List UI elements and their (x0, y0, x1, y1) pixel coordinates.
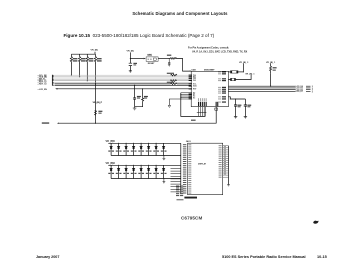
resistor R413 (94, 111, 96, 115)
resistor R411 (231, 71, 239, 73)
U401 bottom pin names (198, 98, 206, 101)
junction dots row2 (118, 165, 157, 166)
stamp mark bottom right (313, 221, 318, 224)
wire bundle under U401 (199, 107, 206, 117)
svg-text:RESET: RESET (148, 63, 155, 65)
switch S401 internals (148, 58, 152, 60)
pin arrow into S401 (144, 58, 146, 59)
wire supply rail (71, 52, 95, 54)
diode D414 (148, 165, 150, 178)
diode D405 (140, 143, 142, 155)
svg-text:3: 3 (312, 91, 313, 93)
diode labels row1 (108, 151, 166, 152)
diode D403 (125, 143, 127, 155)
wire R402 to bus (79, 64, 81, 77)
svg-text:DISPLAY: DISPLAY (198, 162, 207, 165)
diode D416 (163, 165, 165, 178)
wire K column down (181, 93, 206, 117)
wire K4 row to off-page (169, 99, 191, 105)
svg-text:SDA: SDA (193, 85, 197, 88)
U401 left pin box K4 (189, 98, 192, 99)
ground row2 (163, 179, 166, 184)
node +VR_R label (42, 122, 49, 123)
bus left bracket (51, 75, 53, 86)
resistor R402 (79, 54, 81, 64)
resistor R408 (270, 63, 272, 73)
diode D413 (140, 165, 142, 178)
svg-text:P03: P03 (193, 80, 196, 82)
U401 right pin boxes (222, 71, 226, 102)
DS401 left inner pin names (188, 144, 191, 193)
diode labels row2 (108, 173, 166, 174)
svg-text:VR_(B): VR_(B) (91, 49, 99, 51)
wire R403 to bus (86, 64, 88, 81)
ground RC cluster (133, 107, 137, 110)
label below pin cluster (177, 199, 184, 200)
resistor R405 series (171, 83, 177, 85)
capacitor C403 (234, 99, 237, 109)
svg-text:VR_(B)5: VR_(B)5 (106, 140, 116, 143)
diode D408 (163, 143, 165, 155)
bus line dark 2 (55, 83, 171, 85)
switch S401 box (146, 57, 158, 61)
label xtal net (191, 120, 196, 121)
U401 right inner pin names (218, 72, 221, 103)
wire R408 to bus (270, 73, 272, 86)
junction dots row1 (118, 143, 157, 144)
wire VR_B drop (129, 52, 131, 70)
wire R401 to bus (70, 64, 72, 75)
page header (0, 11, 360, 16)
resistor R409 series (170, 80, 176, 82)
bottom part label bar (184, 197, 197, 199)
wire LCD bus 1 (228, 85, 310, 87)
wire LCD bus 2 (228, 87, 310, 89)
U401 left pin names (193, 75, 197, 100)
bus band gray lines (55, 77, 192, 83)
svg-text:+ KEY_C3: + KEY_C3 (38, 83, 47, 85)
resistor R401 (70, 54, 72, 64)
svg-text:+ LCD_EN: + LCD_EN (38, 89, 48, 91)
ground DS401 right (227, 185, 230, 187)
wire keypad row2 bottom rail (111, 178, 181, 180)
resistor R403 (86, 54, 88, 64)
svg-text:VR_(B)_P: VR_(B)_P (93, 102, 103, 104)
svg-text:For Pin Assignment Codes, cons: For Pin Assignment Codes, consult: (188, 46, 229, 49)
diode D415 (155, 165, 157, 178)
wire switch to R407 (158, 58, 170, 60)
svg-text:VR_(B)6: VR_(B)6 (106, 162, 116, 165)
left stub wires lower (171, 169, 181, 192)
svg-text:C6795CM: C6795CM (181, 216, 202, 221)
diode D406 (148, 143, 150, 155)
footer left (36, 255, 59, 259)
resistor R410 (135, 89, 144, 107)
capacitor C404 (244, 99, 247, 109)
svg-text:VR_(B)_1: VR_(B)_1 (266, 62, 276, 64)
ground C403 (234, 117, 237, 119)
wire R407 to U401 (176, 59, 192, 72)
diode D412 (133, 165, 135, 178)
diode D407 (155, 143, 157, 155)
wire VR_B_3 drop (242, 63, 244, 72)
ground C404 (244, 117, 247, 119)
footer right (222, 255, 306, 259)
wire keypad row2 top rail (108, 164, 181, 166)
wire U401 pin right 1 (228, 71, 243, 73)
wire xtal drop (59, 107, 217, 124)
wire VR_B to switch (130, 58, 143, 60)
figure caption (64, 33, 215, 38)
wire LCD bus 4 (228, 90, 310, 92)
connector J401 pin column wire (180, 143, 182, 194)
resistor R412 (231, 78, 236, 80)
diode D402 (118, 143, 120, 155)
resistor R404 (94, 54, 96, 64)
bus line gray top (55, 74, 192, 76)
bus line dark 4 (57, 88, 191, 90)
bus line dark 3 (55, 84, 192, 86)
wire LCD bus 3 (228, 89, 310, 91)
svg-text:RST: RST (193, 88, 197, 90)
capacitor C405 (133, 85, 136, 106)
bus left labels (38, 75, 48, 91)
diode D404 (133, 143, 135, 155)
display module DS401 box (188, 143, 223, 195)
svg-text:VR_(B)_3: VR_(B)_3 (239, 62, 249, 64)
wire U401 pin right 2 (228, 75, 251, 80)
ground below C401 (129, 71, 132, 73)
svg-text:J401: J401 (186, 140, 192, 143)
capacitor C401 (129, 63, 132, 65)
diode D411 (125, 165, 127, 178)
label LCD bus ends (296, 85, 307, 92)
wire U401 pin right 5 (228, 97, 245, 99)
resistor R407 (170, 58, 175, 60)
diode D409 (110, 165, 112, 178)
svg-text:K3: K3 (193, 97, 195, 99)
wire bundle junction bar (197, 112, 207, 114)
footer page number (317, 255, 327, 259)
wire ladder K pins (181, 93, 191, 98)
bus arrows (53, 75, 55, 86)
svg-text:U4, P, 1A, 8V, LCD1, BAT, LCD,: U4, P, 1A, 8V, LCD1, BAT, LCD, TXD, RXD,… (192, 51, 248, 54)
below-block pin cluster (176, 186, 183, 197)
wire keypad row1 top rail (108, 142, 181, 144)
wire R404 down across bus (95, 64, 97, 123)
capacitor C402 to gnd (168, 59, 170, 65)
svg-text:LCD_D7: LCD_D7 (296, 91, 303, 93)
bus line KEY dark 1 (55, 80, 171, 82)
diode D410 (118, 165, 120, 178)
resistor R406 series (171, 74, 177, 76)
connector J401 pin number boxes (183, 144, 186, 193)
svg-text:S401: S401 (147, 54, 151, 57)
svg-text:VR_(B)_1: VR_(B)_1 (245, 74, 255, 76)
wire right pin common (228, 146, 230, 185)
DS401 right pin stubs (223, 146, 229, 178)
U401 left pin boxes (189, 75, 192, 99)
wire keypad row1 bottom rail (111, 155, 181, 157)
off-page arrow down (168, 105, 171, 107)
svg-text:M38C89MF: M38C89MF (204, 69, 215, 71)
crystal Y401 (215, 108, 218, 110)
diode D401 (110, 143, 112, 155)
DS401 right inner pin names (219, 145, 222, 178)
ground row1 (163, 156, 166, 161)
IC U401 microcontroller (191, 71, 228, 106)
label sheet refs (312, 86, 313, 93)
U401 bottom pin boxes (198, 102, 218, 106)
pin number text right (224, 146, 226, 174)
